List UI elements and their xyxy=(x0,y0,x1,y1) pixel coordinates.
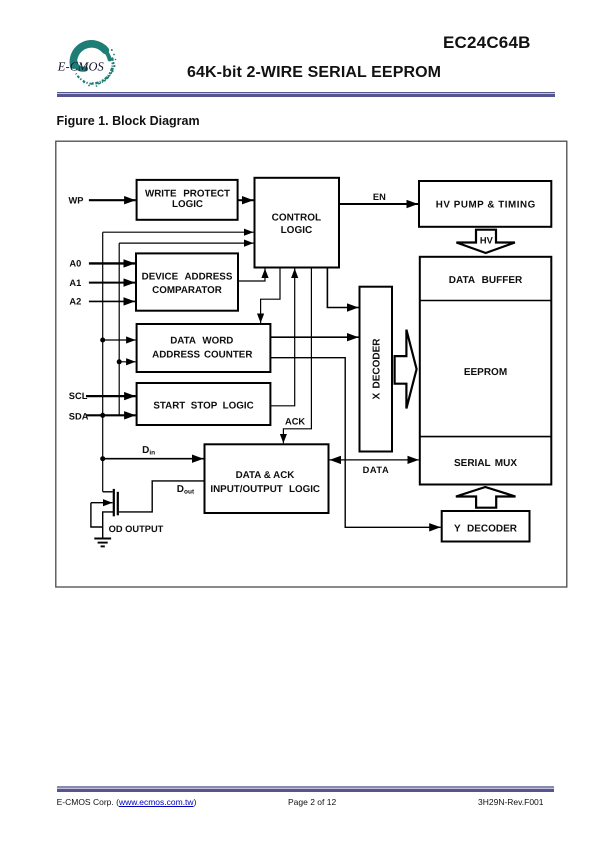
document title xyxy=(187,64,441,82)
svg-text:EN: EN xyxy=(373,192,386,202)
svg-text:SCL: SCL xyxy=(69,391,88,401)
wire rail to control logic (line A) xyxy=(103,231,254,233)
footer left xyxy=(57,797,197,807)
wire SDA rail (vertical) xyxy=(102,232,104,492)
transistor Q1 channel bar xyxy=(113,489,115,516)
wire control logic to X decoder xyxy=(327,268,358,308)
transistor Q1 body tie loop xyxy=(91,503,103,527)
ground symbol xyxy=(94,539,111,547)
wire A1 input xyxy=(89,282,135,284)
junction dot rail1/data-word feed xyxy=(100,338,105,343)
wire rail1 to data word counter xyxy=(103,339,136,341)
fat arrow X decoder to EEPROM xyxy=(395,330,417,409)
svg-text:START STOP LOGIC: START STOP LOGIC xyxy=(153,401,253,412)
svg-text:ADDRESS COUNTER: ADDRESS COUNTER xyxy=(152,350,252,361)
svg-text:DATA WORD: DATA WORD xyxy=(170,336,233,347)
svg-text:OD OUTPUT: OD OUTPUT xyxy=(109,524,164,534)
transistor Q1 body arrow xyxy=(91,502,113,504)
svg-text:X DECODER: X DECODER xyxy=(372,338,383,400)
wire EN control logic to HV pump xyxy=(339,203,418,205)
svg-text:HV PUMP & TIMING: HV PUMP & TIMING xyxy=(436,200,536,211)
fat arrow HV pump to data buffer xyxy=(456,230,515,253)
wire ACK xyxy=(283,268,311,444)
svg-text:COMPARATOR: COMPARATOR xyxy=(152,285,222,296)
divider data buffer / eeprom xyxy=(420,300,552,302)
wire SDA input xyxy=(86,414,136,416)
part number xyxy=(443,33,531,53)
wire data word counter to X decoder xyxy=(270,336,358,338)
footer right xyxy=(478,797,544,807)
wire A0 input xyxy=(89,262,135,264)
wire control logic to data word counter xyxy=(261,268,280,324)
transistor Q1 drain tap xyxy=(103,491,113,493)
footer center xyxy=(288,797,336,807)
svg-text:HV: HV xyxy=(480,235,494,245)
wire SCL input xyxy=(86,395,136,397)
fat arrow Y decoder to serial mux xyxy=(456,487,516,508)
svg-text:CONTROL: CONTROL xyxy=(272,212,321,223)
svg-text:Y DECODER: Y DECODER xyxy=(454,524,518,535)
junction dot SDA/rail1 xyxy=(100,413,105,418)
svg-text:SDA: SDA xyxy=(69,412,89,422)
block HV PUMP & TIMING xyxy=(419,181,551,227)
svg-text:A2: A2 xyxy=(69,297,81,307)
block DATA & ACK INPUT/OUTPUT LOGIC xyxy=(205,444,329,513)
figure frame xyxy=(56,141,567,587)
block Y DECODER xyxy=(442,511,530,542)
block WRITE PROTECT LOGIC xyxy=(137,180,238,220)
wire A2 input xyxy=(89,300,135,302)
svg-text:DATA BUFFER: DATA BUFFER xyxy=(449,275,523,286)
svg-text:LOGIC: LOGIC xyxy=(281,225,313,236)
block START STOP LOGIC xyxy=(137,383,271,425)
junction dot Din/rail1 xyxy=(100,456,105,461)
svg-text:Dout: Dout xyxy=(177,484,195,495)
svg-text:WP: WP xyxy=(69,196,84,206)
svg-text:SERIAL MUX: SERIAL MUX xyxy=(454,458,517,469)
wire second rail (vertical) xyxy=(118,243,120,415)
svg-text:EEPROM: EEPROM xyxy=(464,367,507,378)
figure caption xyxy=(57,114,200,128)
svg-text:ACK: ACK xyxy=(285,417,305,427)
transistor Q1 source tap xyxy=(103,512,114,539)
footer rule xyxy=(57,785,555,787)
block CONTROL LOGIC xyxy=(255,178,340,268)
svg-text:Din: Din xyxy=(142,445,155,456)
junction dot rail2/data-word feed xyxy=(117,359,122,364)
block memory array (data buffer / eeprom / serial mux) xyxy=(420,257,552,485)
block DEVICE ADDRESS COMPARATOR xyxy=(136,253,238,310)
wire rail to control logic (line B) xyxy=(119,242,253,244)
block DATA WORD ADDRESS COUNTER xyxy=(137,324,271,372)
header rule xyxy=(57,91,555,93)
svg-text:DEVICE ADDRESS: DEVICE ADDRESS xyxy=(142,272,233,283)
svg-text:E-CMOS: E-CMOS xyxy=(57,60,104,74)
divider eeprom / serial mux xyxy=(420,436,552,438)
wire data word counter to Y decoder xyxy=(270,358,440,528)
svg-text:DATA & ACK: DATA & ACK xyxy=(236,470,295,481)
wire Din xyxy=(103,458,204,460)
svg-text:DATA: DATA xyxy=(363,465,390,475)
logo brush ring xyxy=(73,44,113,84)
svg-text:WRITE PROTECT: WRITE PROTECT xyxy=(145,189,230,200)
transistor Q1 gate bar xyxy=(117,492,119,516)
svg-text:LOGIC: LOGIC xyxy=(172,199,203,210)
wire Dout xyxy=(119,481,205,512)
svg-text:A1: A1 xyxy=(69,278,81,288)
wire rail2 to data word counter xyxy=(119,361,135,363)
wire comparator to control logic xyxy=(238,269,265,282)
wire write protect to control logic xyxy=(238,199,254,201)
svg-text:INPUT/OUTPUT LOGIC: INPUT/OUTPUT LOGIC xyxy=(210,484,320,495)
logo speckles xyxy=(83,49,116,87)
block X DECODER xyxy=(360,287,393,452)
wire start stop logic to control logic xyxy=(270,269,294,406)
wire DATA bus (bidirectional) xyxy=(330,459,419,461)
svg-text:A0: A0 xyxy=(69,259,81,269)
wire WP input xyxy=(89,199,136,201)
